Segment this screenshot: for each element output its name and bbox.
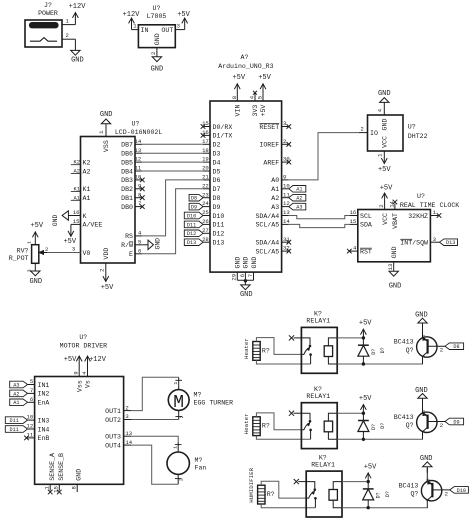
svg-text:GND: GND <box>389 283 402 291</box>
svg-text:R?: R? <box>262 423 270 430</box>
svg-text:+5V: +5V <box>177 11 190 19</box>
ground (U2) <box>151 57 164 74</box>
svg-text:D?: D? <box>385 491 391 497</box>
svg-text:2: 2 <box>361 126 364 133</box>
svg-text:6: 6 <box>138 247 141 254</box>
svg-text:VIN: VIN <box>235 105 242 117</box>
svg-text:GND: GND <box>391 246 398 258</box>
driver U6 MOTOR DRIVER body <box>35 334 124 485</box>
regulator U2 L7805 <box>132 5 185 57</box>
svg-text:+5V: +5V <box>64 356 77 364</box>
svg-text:DB3: DB3 <box>121 177 133 184</box>
svg-text:GND: GND <box>240 291 253 299</box>
driver pin 9 Vss with +5V <box>64 356 84 392</box>
svg-text:+5V: +5V <box>359 320 372 328</box>
svg-text:BC413: BC413 <box>394 414 414 421</box>
pin 30 AREF <box>263 156 291 167</box>
svg-text:GND: GND <box>52 215 59 227</box>
svg-text:3: 3 <box>177 22 180 29</box>
svg-text:15: 15 <box>53 486 60 493</box>
svg-text:D9: D9 <box>191 205 197 211</box>
svg-text:A3: A3 <box>13 382 19 388</box>
svg-text:BC413: BC413 <box>399 482 419 489</box>
pin 25 D10 <box>202 209 224 220</box>
svg-text:2: 2 <box>150 52 157 55</box>
svg-text:INT/SQW: INT/SQW <box>400 240 428 247</box>
svg-text:A/VEE: A/VEE <box>83 222 103 229</box>
pin 14 SCL/A5 <box>255 218 290 229</box>
motor M2 Fan <box>167 442 206 484</box>
wire DB7-D2 <box>142 143 203 145</box>
DHT22 pin 1 VCC to +5V <box>377 136 392 174</box>
svg-text:D9: D9 <box>453 419 459 425</box>
RTC pin 2 VCC with +5V <box>378 185 393 225</box>
svg-text:D1/TX: D1/TX <box>213 133 233 140</box>
wire R2 to relay K2 NC <box>256 436 310 440</box>
svg-text:D10: D10 <box>187 213 196 219</box>
svg-text:+5V: +5V <box>378 166 391 174</box>
svg-text:7: 7 <box>30 387 33 394</box>
driver pin 6 EnA <box>28 396 50 407</box>
wire DB5-D4 <box>142 161 203 163</box>
wire relay K3 coil- to Q3 <box>342 507 428 509</box>
svg-text:1: 1 <box>421 431 427 434</box>
pin 3 RESET <box>259 120 291 131</box>
svg-text:IN4: IN4 <box>38 426 50 433</box>
LCD pin 16 K with ground <box>52 209 87 226</box>
tag D9 (Q2 base) <box>445 418 464 425</box>
svg-text:SDA/A4: SDA/A4 <box>255 240 279 247</box>
svg-text:MOTOR DRIVER: MOTOR DRIVER <box>60 342 108 349</box>
svg-text:D13: D13 <box>213 240 225 247</box>
svg-text:RS: RS <box>125 233 133 240</box>
no-connect (relay K3 NO) <box>294 479 307 484</box>
svg-text:DB1: DB1 <box>121 195 133 202</box>
svg-text:A3: A3 <box>296 205 302 211</box>
svg-text:OUT2: OUT2 <box>105 417 121 424</box>
junction (K3 coil-) <box>367 506 370 509</box>
svg-text:Heater: Heater <box>243 338 250 359</box>
svg-text:1: 1 <box>421 355 427 358</box>
svg-text:A2: A2 <box>271 195 279 202</box>
svg-text:11: 11 <box>135 165 142 172</box>
svg-text:22: 22 <box>202 182 209 189</box>
svg-text:16: 16 <box>350 209 357 216</box>
connector J1 POWER <box>25 2 75 47</box>
ground (J1 pin2) <box>71 39 84 64</box>
svg-text:IO: IO <box>370 130 378 137</box>
svg-text:K2: K2 <box>83 159 91 166</box>
ground (LCD R/W) <box>142 238 161 250</box>
svg-text:14: 14 <box>388 200 395 207</box>
tag A2 (pin 11) <box>289 194 306 201</box>
junction (Arduino GND) <box>244 279 247 282</box>
svg-text:EnA: EnA <box>38 400 50 407</box>
svg-text:D11: D11 <box>213 222 225 229</box>
svg-text:R_POT: R_POT <box>9 255 29 262</box>
power +5V (relay K1) <box>359 320 372 338</box>
svg-text:32KHZ: 32KHZ <box>408 213 428 220</box>
pin 32 SCL/A5 <box>255 245 291 256</box>
svg-text:IN1: IN1 <box>38 382 50 389</box>
svg-text:Q?: Q? <box>406 422 414 429</box>
ground (Q1) <box>415 312 428 330</box>
svg-text:M?: M? <box>195 457 203 464</box>
svg-text:GND: GND <box>154 33 161 45</box>
tag D11 (driver IN3) <box>5 417 27 424</box>
pin 31 SDA/A4 <box>255 236 291 247</box>
junction (K2 coil-) <box>362 438 365 441</box>
svg-text:DB6: DB6 <box>121 151 133 158</box>
svg-text:L7805: L7805 <box>147 13 167 20</box>
tag D8 (pin 23) <box>189 194 203 201</box>
svg-text:29: 29 <box>231 274 238 281</box>
pins 29/6/7 GND (Arduino bottom) <box>231 257 258 281</box>
svg-text:3: 3 <box>72 246 75 253</box>
svg-text:U?: U? <box>417 193 425 200</box>
svg-text:GND: GND <box>251 257 258 269</box>
svg-text:DB7: DB7 <box>121 142 133 149</box>
svg-text:2: 2 <box>179 415 185 418</box>
svg-text:REAL TIME CLOCK: REAL TIME CLOCK <box>400 202 459 209</box>
svg-text:IN3: IN3 <box>38 417 50 424</box>
tag D10 (pin 25) <box>184 212 203 219</box>
svg-text:POWER: POWER <box>38 10 58 17</box>
pin 28 D13 <box>202 236 224 247</box>
svg-text:R/W: R/W <box>121 242 133 249</box>
svg-text:IN2: IN2 <box>38 391 50 398</box>
tag A3 (pin 12) <box>289 203 306 210</box>
LCD pin 6 E <box>129 247 142 258</box>
pin 24 D9 <box>202 200 220 211</box>
svg-text:+12V: +12V <box>123 11 141 19</box>
no-connect (relay K2 NO) <box>289 411 302 416</box>
svg-text:8: 8 <box>71 486 78 489</box>
svg-text:12: 12 <box>135 156 142 163</box>
pin 11 A2 <box>271 191 290 202</box>
LCD U3 LCD-016N002L body <box>81 120 163 263</box>
svg-text:Heater: Heater <box>243 413 250 434</box>
RTC pin 16 SCL <box>349 209 372 220</box>
svg-text:DB4: DB4 <box>121 168 133 175</box>
svg-text:D0/RX: D0/RX <box>213 124 233 131</box>
svg-text:13: 13 <box>387 264 394 271</box>
svg-text:K?: K? <box>314 386 322 393</box>
svg-text:2: 2 <box>283 138 286 145</box>
transistor Q1 BC413 <box>394 324 445 364</box>
svg-text:E: E <box>129 251 133 258</box>
svg-text:Vss: Vss <box>76 380 83 392</box>
svg-text:M?: M? <box>194 392 202 399</box>
svg-text:13: 13 <box>135 147 142 154</box>
svg-text:VDD: VDD <box>103 248 110 260</box>
svg-text:3: 3 <box>283 120 286 127</box>
svg-text:DB0: DB0 <box>121 204 133 211</box>
pin 26 D11 <box>202 218 224 229</box>
sensor U4 DHT22 body <box>368 115 428 151</box>
svg-text:OUT3: OUT3 <box>105 434 121 441</box>
svg-text:2: 2 <box>99 269 106 272</box>
tag D11 (driver IN4) <box>5 426 27 433</box>
svg-text:SCL/A5: SCL/A5 <box>255 248 279 255</box>
pin 18 D3 <box>202 147 220 158</box>
svg-text:D9: D9 <box>213 204 221 211</box>
wire R3 to relay K3 common <box>261 481 306 498</box>
svg-text:+5V: +5V <box>260 105 267 117</box>
tag A1 (pin 10) <box>289 186 306 193</box>
pin 12 A3 <box>271 200 289 211</box>
wire relay K1 coil+ to +5V <box>337 337 363 339</box>
relay K3 RELAY1 <box>306 454 342 517</box>
svg-text:1: 1 <box>173 382 179 385</box>
svg-text:2: 2 <box>179 478 185 481</box>
svg-text:K1: K1 <box>83 186 91 193</box>
svg-text:RESET: RESET <box>259 124 279 131</box>
tag D13 (pin 28) <box>184 239 203 246</box>
svg-text:D8: D8 <box>213 195 221 202</box>
svg-text:U?: U? <box>79 334 87 341</box>
power +5V (pot) <box>30 222 43 245</box>
pin 23 D8 <box>202 191 220 202</box>
resistor R1 Heater <box>243 338 270 360</box>
svg-text:IN: IN <box>141 27 149 34</box>
ground (Q3) <box>420 455 433 473</box>
svg-text:OUT1: OUT1 <box>105 408 121 415</box>
pin 5 +5V <box>257 74 272 117</box>
svg-text:3: 3 <box>125 413 128 420</box>
diode D1 flyback <box>358 338 386 364</box>
svg-text:RELAY1: RELAY1 <box>306 393 330 400</box>
svg-text:+5V: +5V <box>380 185 393 193</box>
svg-text:GND: GND <box>100 111 113 119</box>
svg-text:GND: GND <box>71 57 84 65</box>
svg-text:SENSE_B: SENSE_B <box>58 453 65 481</box>
svg-text:+5V: +5V <box>359 395 372 403</box>
svg-text:2: 2 <box>66 32 69 39</box>
label A1 <box>71 195 91 202</box>
RTC pin 4 RST no-connect <box>347 245 372 256</box>
wire R2 to relay K2 common <box>256 413 301 430</box>
svg-text:RV?: RV? <box>17 247 29 254</box>
svg-text:2: 2 <box>378 204 385 207</box>
svg-text:GND: GND <box>154 238 161 250</box>
wire SDA/A4 to RTC SCL <box>289 216 350 219</box>
svg-text:+5V: +5V <box>101 284 114 292</box>
LCD pin 12 DB5 <box>121 156 142 167</box>
svg-text:K?: K? <box>319 454 327 461</box>
svg-text:17: 17 <box>202 138 209 145</box>
svg-text:K: K <box>83 213 87 220</box>
svg-text:D?: D? <box>380 347 386 353</box>
svg-text:A2: A2 <box>296 196 302 202</box>
svg-text:1: 1 <box>426 499 432 502</box>
svg-text:EnB: EnB <box>38 435 50 442</box>
driver pin 2 OUT1 <box>105 404 131 415</box>
svg-text:A0: A0 <box>271 177 279 184</box>
svg-text:A?: A? <box>241 54 249 61</box>
wire relay K2 coil+ to +5V <box>337 412 363 414</box>
pin 19 D4 <box>202 156 220 167</box>
svg-text:3V3: 3V3 <box>252 105 259 117</box>
driver pin 14 OUT4 <box>105 439 133 450</box>
svg-text:D8: D8 <box>453 344 459 350</box>
no-connect (relay K1 NO) <box>289 335 302 340</box>
svg-text:A1: A1 <box>271 186 279 193</box>
svg-text:VBAT: VBAT <box>392 213 399 229</box>
svg-text:D11: D11 <box>10 427 19 433</box>
relay K2 RELAY1 <box>301 386 337 449</box>
svg-text:GND: GND <box>420 455 433 463</box>
svg-text:+5V: +5V <box>364 463 377 471</box>
driver pin 5 IN1 <box>28 378 50 389</box>
svg-text:OUT4: OUT4 <box>105 442 121 449</box>
svg-text:9: 9 <box>73 371 80 374</box>
svg-text:GND: GND <box>378 90 391 98</box>
wire OUT1 to M1 <box>131 377 179 410</box>
svg-text:19: 19 <box>202 156 209 163</box>
wire relay K3 coil+ to +5V <box>342 481 368 483</box>
LCD pin 8 DB1 <box>121 191 144 202</box>
junction (K2 coil+) <box>362 412 365 415</box>
tag D9 (pin 24) <box>189 203 203 210</box>
ground (Q2) <box>415 387 428 405</box>
svg-text:2: 2 <box>445 490 448 497</box>
svg-text:HUMIDIFIER: HUMIDIFIER <box>248 467 255 502</box>
svg-text:A2: A2 <box>83 168 91 175</box>
svg-text:BC413: BC413 <box>394 339 414 346</box>
ground (pot) <box>29 263 42 286</box>
tag D11 (pin 26) <box>184 221 203 228</box>
resistor R2 Heater <box>243 413 270 435</box>
svg-text:LCD-016N002L: LCD-016N002L <box>115 129 163 136</box>
pin 9 A0 <box>271 174 289 185</box>
svg-text:V0: V0 <box>83 250 91 257</box>
svg-text:9: 9 <box>138 182 141 189</box>
RTC pin 14 VBAT no-connect <box>388 200 399 229</box>
svg-text:A1: A1 <box>83 195 91 202</box>
tag D10 (Q3 base) <box>450 487 469 494</box>
svg-text:GND: GND <box>243 257 250 269</box>
transistor Q2 BC413 <box>394 400 445 440</box>
svg-text:GND: GND <box>382 119 389 131</box>
svg-text:GND: GND <box>415 312 428 320</box>
transistor Q3 BC413 <box>399 468 450 508</box>
ground (Arduino) <box>240 281 253 299</box>
driver pin 1 SENSE_A no-connect <box>44 453 56 494</box>
diode D2 flyback <box>358 413 386 439</box>
svg-text:D?: D? <box>371 349 377 355</box>
svg-text:VSS: VSS <box>103 140 110 152</box>
svg-text:RELAY1: RELAY1 <box>306 318 330 325</box>
pin 22 D7 <box>202 182 220 193</box>
svg-text:3: 3 <box>421 335 427 338</box>
svg-text:+5V: +5V <box>258 74 271 82</box>
tag A2 (driver IN2) <box>10 390 28 397</box>
wire OUT2 to M1 <box>131 419 179 421</box>
RTC pin 13 GND with ground <box>387 246 401 290</box>
svg-text:6: 6 <box>30 396 33 403</box>
svg-text:20: 20 <box>202 165 209 172</box>
svg-text:DB5: DB5 <box>121 159 133 166</box>
junction (K1 coil-) <box>362 362 365 365</box>
driver pin 15 SENSE_B no-connect <box>53 453 65 494</box>
svg-text:R?: R? <box>262 347 270 354</box>
pin 16 D1/TX <box>201 129 233 140</box>
svg-text:VCC: VCC <box>382 136 389 148</box>
wire relay K2 coil- to Q2 <box>337 438 423 440</box>
svg-text:7: 7 <box>138 200 141 207</box>
RTC U5 REAL TIME CLOCK body <box>358 193 460 262</box>
resistor R3 HUMIDIFIER <box>248 467 275 504</box>
svg-text:D12: D12 <box>213 231 225 238</box>
driver pin 12 IN4 <box>26 423 49 434</box>
label A2 <box>71 168 91 175</box>
svg-text:IOREF: IOREF <box>259 142 279 149</box>
svg-text:8: 8 <box>138 191 141 198</box>
wire R3 to relay K3 NC <box>261 504 315 508</box>
tag A1 (driver EnA) <box>10 399 28 406</box>
svg-text:AREF: AREF <box>263 159 279 166</box>
power +5V (relay K3) <box>364 463 377 481</box>
pin 2 IOREF <box>259 138 291 149</box>
svg-text:A2: A2 <box>13 391 19 397</box>
label K1 <box>71 186 91 193</box>
svg-text:+12V: +12V <box>69 3 87 11</box>
LCD pin 13 DB6 <box>121 147 142 158</box>
svg-text:GND: GND <box>415 387 428 395</box>
driver pin 3 OUT2 <box>105 413 131 424</box>
power +12V (J1) <box>69 3 87 24</box>
svg-text:A3: A3 <box>271 204 279 211</box>
svg-text:10: 10 <box>135 174 142 181</box>
LCD pin 2 VDD to +5V <box>99 248 115 293</box>
potentiometer RV1 R_POT <box>9 241 49 272</box>
LCD pin 11 DB4 <box>121 165 142 176</box>
tag A3 (driver IN1) <box>10 381 28 388</box>
svg-text:SENSE_A: SENSE_A <box>49 453 56 481</box>
svg-text:3: 3 <box>421 410 427 413</box>
svg-text:SDA/A4: SDA/A4 <box>255 213 279 220</box>
svg-text:3: 3 <box>426 478 432 481</box>
relay K1 RELAY1 <box>301 311 337 374</box>
svg-text:OUT: OUT <box>161 27 173 34</box>
svg-text:18: 18 <box>202 147 209 154</box>
LCD pin 15 A/VEE to +5V <box>63 218 102 246</box>
LCD pin 10 DB3 <box>121 174 144 185</box>
svg-text:D?: D? <box>380 423 386 429</box>
wire OUT4 to M2 <box>131 445 178 484</box>
pin 15 D0/RX <box>201 120 233 131</box>
svg-text:9: 9 <box>283 174 286 181</box>
svg-text:Q?: Q? <box>406 347 414 354</box>
svg-text:D4: D4 <box>213 159 221 166</box>
wire V0 to pot wiper <box>47 252 81 254</box>
svg-text:R?: R? <box>267 491 275 498</box>
RTC pin 3 INT/SQW <box>400 236 439 247</box>
svg-text:GND: GND <box>235 257 242 269</box>
svg-text:D?: D? <box>376 492 382 498</box>
svg-text:3: 3 <box>433 236 436 243</box>
svg-text:D11: D11 <box>187 222 196 228</box>
svg-text:1: 1 <box>172 446 178 449</box>
svg-text:SCL/A5: SCL/A5 <box>255 222 279 229</box>
svg-text:DB2: DB2 <box>121 186 133 193</box>
svg-text:K?: K? <box>314 311 322 318</box>
svg-text:M: M <box>173 393 184 413</box>
RTC pin 15 SDA <box>349 218 372 229</box>
wire R1 to relay K1 common <box>256 338 301 355</box>
tag D13 (RTC INT/SQW) <box>440 239 458 246</box>
